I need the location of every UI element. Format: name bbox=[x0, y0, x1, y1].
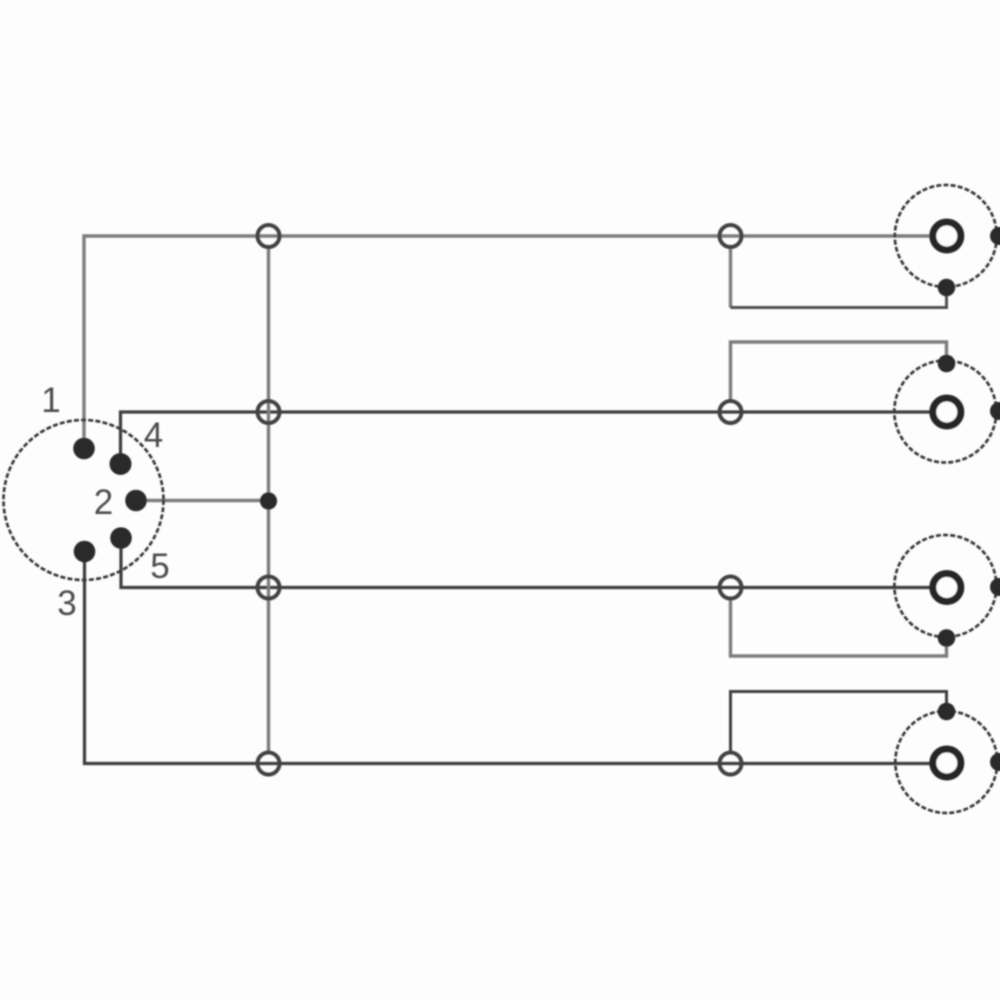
shield wire RCA4 bbox=[731, 692, 947, 752]
svg-text:1: 1 bbox=[41, 381, 60, 420]
junction dot pin2/bus bbox=[260, 492, 277, 509]
DIN pin 2 bbox=[125, 490, 147, 512]
wire pin3 to RCA4 center (row 4 signal) bbox=[85, 551, 934, 764]
terminal ring shield/row4 bbox=[720, 753, 742, 775]
wire pin4 to RCA2 center (row 2 signal) bbox=[121, 412, 934, 464]
RCA1 edge dot bbox=[990, 227, 1000, 245]
RCA1 shield terminal dot bbox=[938, 279, 956, 297]
RCA2 body bbox=[894, 361, 996, 463]
RCA1 center pin ring bbox=[933, 222, 961, 250]
terminal ring bus/row2 bbox=[258, 401, 280, 423]
terminal ring bus/row4 bbox=[258, 753, 280, 775]
terminal ring bus/row3 bbox=[258, 577, 280, 599]
RCA4 shield terminal dot bbox=[938, 703, 956, 721]
DIN pin 1 bbox=[73, 438, 95, 460]
svg-text:3: 3 bbox=[57, 584, 76, 623]
RCA3 edge dot bbox=[990, 578, 1000, 596]
RCA3 center pin ring bbox=[933, 574, 961, 602]
terminal ring shield/row2 bbox=[720, 401, 742, 423]
DIN pin 5 bbox=[110, 527, 132, 549]
wire pin1 to RCA1 center (row 1 signal) bbox=[84, 236, 933, 449]
RCA1 body bbox=[895, 185, 997, 287]
RCA4 edge dot bbox=[990, 753, 1000, 771]
DIN connector body bbox=[4, 420, 164, 580]
shield wire RCA3 bbox=[731, 600, 947, 657]
svg-text:5: 5 bbox=[150, 547, 169, 586]
wire pin2 to ground bus bbox=[136, 499, 269, 502]
shield wire RCA2 bbox=[731, 342, 947, 400]
terminal ring bus/row1 bbox=[258, 225, 280, 247]
RCA4 body bbox=[895, 711, 997, 813]
DIN pin 3 bbox=[74, 541, 96, 563]
RCA2 edge dot bbox=[990, 402, 1000, 420]
RCA4 center pin ring bbox=[933, 749, 961, 777]
wire pin5 to RCA3 center (row 3 signal) bbox=[121, 538, 933, 588]
RCA2 shield terminal dot bbox=[938, 355, 956, 373]
RCA3 shield terminal dot bbox=[938, 629, 956, 647]
shield wire RCA1 bbox=[731, 288, 947, 308]
shield wire RCA1 stub bbox=[729, 248, 732, 308]
RCA2 center pin ring bbox=[933, 398, 961, 426]
DIN pin 4 bbox=[110, 453, 132, 475]
svg-text:4: 4 bbox=[144, 416, 163, 455]
svg-text:2: 2 bbox=[94, 483, 113, 522]
terminal ring shield/row1 bbox=[720, 225, 742, 247]
terminal ring shield/row3 bbox=[720, 577, 742, 599]
ground bus wire (vertical) bbox=[267, 248, 270, 752]
RCA3 body bbox=[894, 535, 996, 637]
